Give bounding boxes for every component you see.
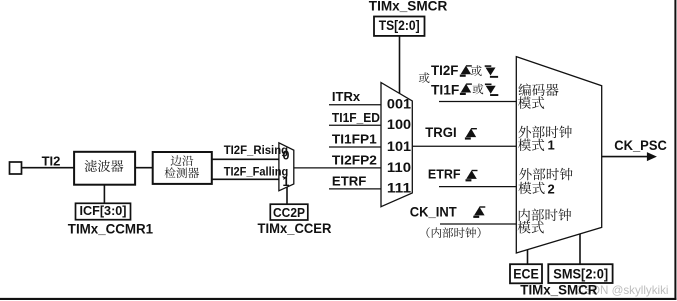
svg-text:ECE: ECE bbox=[513, 266, 539, 281]
svg-text:CK_PSC: CK_PSC bbox=[614, 138, 667, 153]
svg-text:TI1FP1: TI1FP1 bbox=[332, 131, 377, 146]
svg-text:2: 2 bbox=[548, 181, 555, 196]
svg-text:0: 0 bbox=[283, 149, 290, 163]
svg-text:ICF[3:0]: ICF[3:0] bbox=[80, 203, 127, 218]
svg-text:TI2: TI2 bbox=[42, 153, 61, 168]
svg-text:1: 1 bbox=[283, 175, 290, 189]
svg-text:TI2F_Rising: TI2F_Rising bbox=[224, 143, 288, 157]
svg-text:ITRx: ITRx bbox=[332, 89, 361, 104]
svg-text:TI2F: TI2F bbox=[431, 63, 458, 78]
svg-text:ETRF: ETRF bbox=[332, 173, 367, 188]
svg-text:100: 100 bbox=[387, 117, 411, 132]
svg-text:CK_INT: CK_INT bbox=[410, 204, 458, 219]
svg-text:TIMx_SMCR: TIMx_SMCR bbox=[520, 283, 597, 298]
svg-text:TRGI: TRGI bbox=[425, 125, 456, 140]
svg-text:TI2F_Falling: TI2F_Falling bbox=[224, 165, 289, 179]
svg-text:TIMx_CCER: TIMx_CCER bbox=[258, 221, 332, 236]
svg-text:101: 101 bbox=[387, 139, 412, 154]
svg-text:001: 001 bbox=[387, 97, 412, 112]
svg-text:CC2P: CC2P bbox=[273, 205, 305, 220]
svg-text:TIMx_CCMR1: TIMx_CCMR1 bbox=[68, 222, 154, 237]
svg-text:111: 111 bbox=[387, 181, 412, 196]
svg-text:TI1F_ED: TI1F_ED bbox=[332, 110, 380, 125]
svg-text:TI1F: TI1F bbox=[431, 82, 459, 97]
svg-text:110: 110 bbox=[387, 160, 411, 175]
svg-text:TIMx_SMCR: TIMx_SMCR bbox=[369, 0, 448, 14]
svg-text:TI2FP2: TI2FP2 bbox=[332, 153, 377, 168]
svg-text:1: 1 bbox=[548, 137, 555, 152]
svg-text:SMS[2:0]: SMS[2:0] bbox=[553, 266, 608, 281]
svg-text:TS[2:0]: TS[2:0] bbox=[379, 18, 420, 33]
svg-text:ETRF: ETRF bbox=[428, 167, 461, 182]
